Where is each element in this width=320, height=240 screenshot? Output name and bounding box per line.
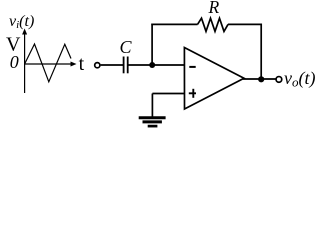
wire capacitor to node A: [128, 64, 184, 66]
output terminal: [276, 77, 282, 83]
wire feedback down to output node: [260, 24, 262, 80]
waveform x-axis: [25, 62, 77, 67]
wire feedback top left segment: [151, 23, 197, 25]
wire op-amp output: [243, 78, 276, 80]
wire node A up to feedback: [151, 24, 153, 65]
node B output junction dot: [258, 76, 264, 82]
resistor R: [198, 18, 229, 31]
svg-text:vi(t): vi(t): [9, 13, 34, 31]
svg-text:vo(t): vo(t): [284, 68, 316, 90]
node A junction dot: [149, 62, 155, 68]
ground: [139, 118, 166, 126]
wire feedback top right segment: [228, 23, 262, 25]
svg-text:C: C: [120, 37, 133, 57]
input terminal: [95, 63, 100, 68]
waveform y-axis: [22, 29, 27, 94]
wire ground stem: [151, 94, 153, 118]
op-amp U1: [184, 48, 244, 110]
svg-text:t: t: [79, 53, 85, 75]
waveform triangle wave: [25, 44, 71, 82]
capacitor C: [124, 57, 128, 74]
svg-text:R: R: [208, 0, 220, 17]
wire op-amp plus input: [152, 93, 184, 95]
svg-text:0: 0: [10, 52, 19, 72]
wire input to capacitor: [101, 64, 123, 66]
